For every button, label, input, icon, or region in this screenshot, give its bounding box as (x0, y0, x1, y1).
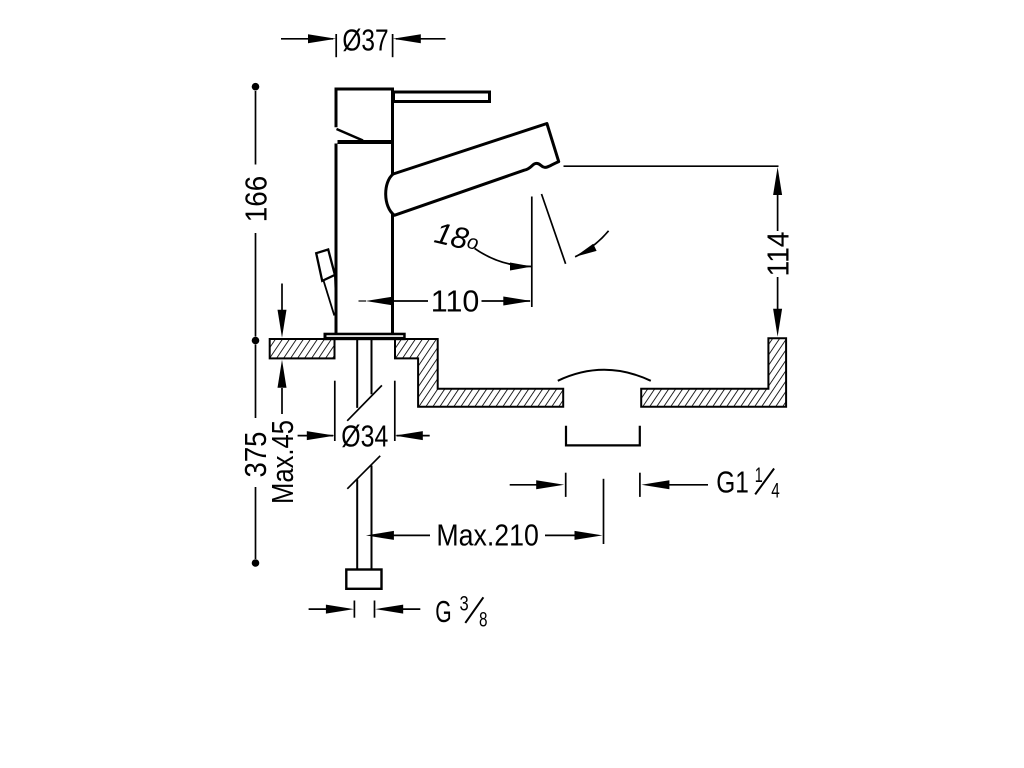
angle arc with arrow (left) (475, 248, 532, 270)
G3/8 connection nut (346, 570, 381, 589)
drain tailpiece (566, 426, 640, 446)
countertop left slab (hatched) (270, 339, 335, 358)
spout height extension line (564, 165, 779, 167)
faucet cartridge cap (336, 89, 394, 142)
faucet handle lever bar (394, 92, 490, 102)
svg-text:Max.210: Max.210 (436, 517, 539, 552)
svg-text:G1: G1 (716, 465, 749, 500)
dimension 114 (spout to rim) (760, 167, 795, 337)
dimension Max.210 (pipe to drain axis) (366, 517, 603, 552)
dimension 375 (countertop to pipe end) (238, 345, 273, 567)
dimension Ø37 (281, 22, 446, 57)
dimension G1 1/4 (drain thread) (510, 464, 780, 503)
dimension Ø34 (hole diameter) (298, 381, 430, 454)
dimension G 3/8 (supply thread) (309, 593, 488, 632)
supply pipe lower section (357, 466, 371, 570)
angle 18 deg reference vertical line (531, 197, 533, 308)
faucet body column (336, 144, 393, 335)
faucet spout (386, 124, 559, 216)
svg-text:Ø37: Ø37 (342, 22, 388, 57)
pop-up waste dome over drain (558, 370, 651, 381)
svg-text:166: 166 (239, 176, 274, 223)
svg-text:G: G (435, 594, 451, 629)
dimension Max.45 (counter thickness) (265, 284, 300, 505)
svg-text:8: 8 (479, 609, 488, 632)
drain pull rod knob (316, 250, 336, 316)
svg-text:1: 1 (755, 464, 763, 487)
svg-text:110: 110 (431, 284, 480, 319)
basin floor right of drain and right wall (hatched) (641, 338, 786, 407)
countertop + basin wall left of drain (hatched) (395, 339, 563, 407)
svg-text:4: 4 (771, 480, 780, 503)
pipe break slash upper (347, 385, 382, 420)
svg-text:Ø34: Ø34 (341, 418, 388, 453)
supply pipe upper section (357, 340, 371, 408)
angle 18 deg slanted line (542, 194, 566, 264)
svg-text:114: 114 (760, 232, 795, 277)
drain axis extension line (603, 479, 605, 544)
angle arc with arrow (right) (575, 231, 609, 257)
pipe break slash lower (347, 456, 380, 489)
svg-text:Max.45: Max.45 (265, 420, 300, 504)
faucet base plate (324, 333, 406, 341)
dimension 166 (cap top to countertop) (239, 83, 274, 344)
dimension 110 (axis to spout tip) (359, 284, 532, 319)
svg-text:3: 3 (460, 593, 469, 616)
